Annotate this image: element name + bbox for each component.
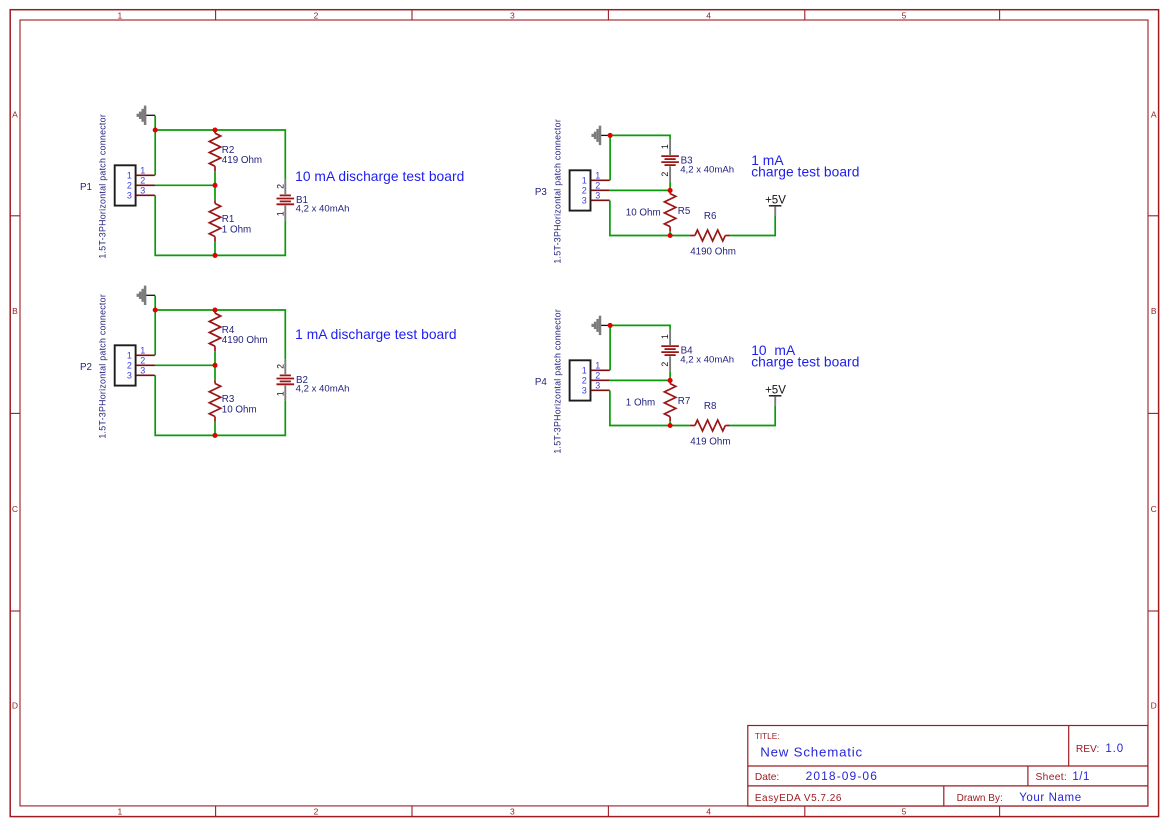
svg-text:1: 1 bbox=[275, 391, 285, 396]
ground GND bbox=[138, 286, 155, 305]
wire bbox=[214, 171, 216, 200]
resistor R8 bbox=[690, 401, 731, 448]
svg-text:P4: P4 bbox=[535, 377, 548, 388]
svg-text:1: 1 bbox=[118, 806, 123, 816]
svg-text:4,2 x 40mAh: 4,2 x 40mAh bbox=[296, 204, 350, 215]
svg-text:4190 Ohm: 4190 Ohm bbox=[690, 247, 736, 258]
svg-text:3: 3 bbox=[582, 196, 587, 206]
wire bbox=[609, 135, 611, 180]
svg-text:1: 1 bbox=[595, 360, 600, 370]
svg-text:4190 Ohm: 4190 Ohm bbox=[222, 335, 268, 346]
svg-text:2: 2 bbox=[140, 355, 145, 365]
svg-text:1 Ohm: 1 Ohm bbox=[626, 398, 655, 409]
svg-text:Drawn By:: Drawn By: bbox=[957, 793, 1003, 804]
junction bbox=[608, 323, 613, 328]
junction bbox=[668, 423, 673, 428]
svg-text:2: 2 bbox=[127, 361, 132, 371]
svg-text:+5V: +5V bbox=[765, 194, 786, 206]
svg-text:1: 1 bbox=[595, 170, 600, 180]
svg-text:D: D bbox=[12, 701, 18, 711]
net +5V bbox=[765, 384, 786, 405]
junction bbox=[212, 363, 217, 368]
svg-text:charge test board: charge test board bbox=[751, 355, 859, 370]
svg-text:2: 2 bbox=[595, 370, 600, 380]
wire bbox=[610, 189, 670, 191]
resistor R5 bbox=[626, 190, 691, 231]
resistor R3 bbox=[209, 380, 256, 421]
junction bbox=[668, 233, 673, 238]
svg-text:1.5T-3PHorizontal patch connec: 1.5T-3PHorizontal patch connector bbox=[98, 114, 108, 259]
svg-text:2: 2 bbox=[595, 180, 600, 190]
svg-text:2: 2 bbox=[582, 376, 587, 386]
svg-text:R6: R6 bbox=[704, 211, 717, 222]
svg-text:1 Ohm: 1 Ohm bbox=[222, 224, 251, 235]
junction bbox=[668, 188, 673, 193]
wire bbox=[155, 195, 285, 255]
svg-text:New Schematic: New Schematic bbox=[760, 744, 863, 759]
junction bbox=[668, 378, 673, 383]
svg-text:P1: P1 bbox=[80, 182, 92, 193]
svg-text:2: 2 bbox=[660, 172, 670, 177]
pin 3 bbox=[591, 199, 610, 201]
svg-text:2: 2 bbox=[140, 175, 145, 185]
svg-text:10 Ohm: 10 Ohm bbox=[222, 404, 257, 415]
svg-text:1: 1 bbox=[118, 11, 123, 21]
connector P2 bbox=[80, 294, 155, 439]
svg-text:EasyEDA V5.7.26: EasyEDA V5.7.26 bbox=[755, 793, 842, 804]
svg-text:2: 2 bbox=[582, 186, 587, 196]
connector P4 bbox=[535, 309, 610, 454]
svg-text:R8: R8 bbox=[704, 401, 717, 412]
svg-text:1: 1 bbox=[140, 165, 145, 175]
battery B1 bbox=[275, 179, 349, 220]
svg-text:A: A bbox=[1151, 110, 1157, 120]
wire bbox=[610, 135, 670, 139]
battery B3 bbox=[660, 140, 734, 182]
pin 1 bbox=[591, 369, 610, 371]
svg-text:419 Ohm: 419 Ohm bbox=[222, 155, 262, 166]
svg-text:2018-09-06: 2018-09-06 bbox=[806, 769, 878, 783]
svg-text:P2: P2 bbox=[80, 362, 92, 373]
pin 2 bbox=[591, 189, 610, 191]
svg-text:2: 2 bbox=[275, 364, 285, 369]
wire bbox=[730, 215, 775, 235]
svg-text:4,2 x 40mAh: 4,2 x 40mAh bbox=[680, 164, 734, 175]
resistor R7 bbox=[626, 380, 691, 421]
svg-text:D: D bbox=[1151, 701, 1157, 711]
battery B2 bbox=[275, 359, 349, 400]
wire bbox=[154, 116, 156, 176]
ground GND bbox=[593, 126, 610, 145]
net +5V bbox=[765, 194, 786, 215]
connector P1 bbox=[80, 114, 155, 259]
svg-text:REV:: REV: bbox=[1076, 744, 1099, 755]
svg-text:10 Ohm: 10 Ohm bbox=[626, 208, 661, 219]
svg-text:2: 2 bbox=[314, 11, 319, 21]
junction bbox=[212, 183, 217, 188]
wire bbox=[669, 182, 671, 191]
svg-text:3: 3 bbox=[140, 185, 145, 195]
wire bbox=[155, 375, 285, 435]
wire bbox=[669, 232, 671, 236]
svg-text:+5V: +5V bbox=[765, 384, 786, 396]
pin 3 bbox=[136, 194, 155, 196]
svg-text:1: 1 bbox=[582, 176, 587, 186]
svg-text:B: B bbox=[12, 306, 18, 316]
svg-text:A: A bbox=[12, 110, 18, 120]
wire bbox=[610, 391, 690, 426]
wire bbox=[610, 201, 690, 236]
svg-text:1: 1 bbox=[127, 351, 132, 361]
ground GND bbox=[138, 106, 155, 125]
svg-text:TITLE:: TITLE: bbox=[755, 732, 780, 741]
wire bbox=[669, 422, 671, 426]
svg-text:1 mA discharge test board: 1 mA discharge test board bbox=[295, 327, 457, 342]
pin 1 bbox=[591, 179, 610, 181]
svg-text:2: 2 bbox=[660, 362, 670, 367]
pin 2 bbox=[136, 184, 155, 186]
svg-text:2: 2 bbox=[127, 181, 132, 191]
svg-text:C: C bbox=[12, 504, 18, 514]
svg-text:3: 3 bbox=[127, 191, 132, 201]
svg-text:1.5T-3PHorizontal patch connec: 1.5T-3PHorizontal patch connector bbox=[553, 309, 563, 454]
svg-text:1.5T-3PHorizontal patch connec: 1.5T-3PHorizontal patch connector bbox=[553, 119, 563, 264]
title block bbox=[748, 726, 1148, 807]
svg-text:2: 2 bbox=[314, 806, 319, 816]
pin 2 bbox=[591, 379, 610, 381]
junction bbox=[212, 253, 217, 258]
svg-text:2: 2 bbox=[275, 184, 285, 189]
svg-text:3: 3 bbox=[510, 11, 515, 21]
svg-text:1/1: 1/1 bbox=[1072, 771, 1090, 783]
svg-text:charge test board: charge test board bbox=[751, 165, 859, 180]
svg-text:R7: R7 bbox=[678, 396, 691, 407]
wire bbox=[214, 422, 216, 436]
svg-text:B: B bbox=[1151, 306, 1157, 316]
svg-text:3: 3 bbox=[140, 365, 145, 375]
junction bbox=[153, 127, 158, 132]
svg-text:419 Ohm: 419 Ohm bbox=[690, 437, 730, 448]
svg-text:3: 3 bbox=[582, 386, 587, 396]
svg-text:1: 1 bbox=[582, 366, 587, 376]
svg-text:1: 1 bbox=[660, 144, 670, 149]
svg-text:C: C bbox=[1151, 504, 1157, 514]
svg-text:5: 5 bbox=[902, 11, 907, 21]
junction bbox=[153, 307, 158, 312]
svg-text:3: 3 bbox=[127, 371, 132, 381]
battery B4 bbox=[660, 330, 734, 372]
svg-text:R5: R5 bbox=[678, 206, 691, 217]
pin 1 bbox=[136, 174, 155, 176]
svg-text:1: 1 bbox=[660, 334, 670, 339]
svg-text:4: 4 bbox=[706, 806, 711, 816]
wire bbox=[214, 351, 216, 380]
pin 1 bbox=[136, 354, 155, 356]
wire bbox=[155, 310, 285, 359]
svg-text:4,2 x 40mAh: 4,2 x 40mAh bbox=[680, 354, 734, 365]
junction bbox=[212, 127, 217, 132]
junction bbox=[608, 133, 613, 138]
svg-text:5: 5 bbox=[902, 806, 907, 816]
svg-text:P3: P3 bbox=[535, 187, 548, 198]
svg-text:3: 3 bbox=[595, 380, 600, 390]
ground GND bbox=[593, 316, 610, 335]
svg-text:Date:: Date: bbox=[755, 772, 779, 783]
wire bbox=[610, 379, 670, 381]
junction bbox=[212, 307, 217, 312]
pin 2 bbox=[136, 364, 155, 366]
svg-text:1.0: 1.0 bbox=[1105, 743, 1124, 755]
svg-text:1.5T-3PHorizontal patch connec: 1.5T-3PHorizontal patch connector bbox=[98, 294, 108, 439]
svg-text:1: 1 bbox=[127, 171, 132, 181]
wire bbox=[155, 184, 215, 186]
svg-text:10 mA discharge test board: 10 mA discharge test board bbox=[295, 169, 464, 184]
svg-text:Sheet:: Sheet: bbox=[1036, 772, 1068, 783]
junction bbox=[212, 433, 217, 438]
svg-text:1: 1 bbox=[275, 211, 285, 216]
svg-text:Your Name: Your Name bbox=[1019, 792, 1082, 804]
wire bbox=[214, 242, 216, 256]
resistor R6 bbox=[690, 211, 736, 258]
svg-text:4: 4 bbox=[706, 11, 711, 21]
wire bbox=[154, 296, 156, 356]
connector P3 bbox=[535, 119, 610, 264]
wire bbox=[669, 372, 671, 381]
wire bbox=[610, 325, 670, 329]
wire bbox=[155, 364, 215, 366]
resistor R4 bbox=[209, 310, 267, 351]
svg-text:3: 3 bbox=[595, 190, 600, 200]
resistor R2 bbox=[209, 130, 262, 171]
wire bbox=[609, 325, 611, 370]
wire bbox=[730, 405, 775, 425]
pin 3 bbox=[591, 389, 610, 391]
svg-text:1: 1 bbox=[140, 345, 145, 355]
wire bbox=[155, 130, 285, 179]
svg-text:3: 3 bbox=[510, 806, 515, 816]
pin 3 bbox=[136, 374, 155, 376]
resistor R1 bbox=[209, 200, 251, 241]
svg-text:4,2 x 40mAh: 4,2 x 40mAh bbox=[296, 384, 350, 395]
